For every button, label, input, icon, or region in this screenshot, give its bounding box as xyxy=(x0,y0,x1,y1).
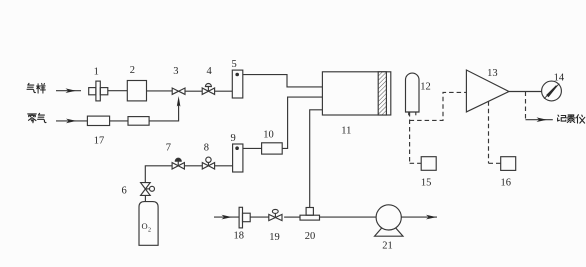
svg-text:1: 1 xyxy=(94,67,99,78)
svg-text:3: 3 xyxy=(173,66,178,77)
svg-text:11: 11 xyxy=(341,125,351,136)
svg-text:10: 10 xyxy=(263,129,274,140)
svg-text:6: 6 xyxy=(122,186,127,197)
svg-text:16: 16 xyxy=(501,178,512,189)
svg-text:12: 12 xyxy=(420,82,431,93)
svg-text:17: 17 xyxy=(94,136,105,147)
svg-text:15: 15 xyxy=(421,178,432,189)
svg-text:2: 2 xyxy=(130,65,135,76)
svg-text:13: 13 xyxy=(487,68,498,79)
svg-text:8: 8 xyxy=(204,142,209,153)
svg-text:7: 7 xyxy=(166,142,171,153)
svg-text:20: 20 xyxy=(305,231,316,242)
svg-text:9: 9 xyxy=(231,133,236,144)
svg-text:O: O xyxy=(142,221,148,231)
svg-text:18: 18 xyxy=(234,230,245,241)
svg-text:19: 19 xyxy=(269,232,280,243)
svg-text:21: 21 xyxy=(382,241,393,252)
svg-text:4: 4 xyxy=(207,66,213,77)
svg-text:2: 2 xyxy=(148,228,151,234)
svg-text:5: 5 xyxy=(232,59,237,70)
svg-text:14: 14 xyxy=(554,72,565,83)
